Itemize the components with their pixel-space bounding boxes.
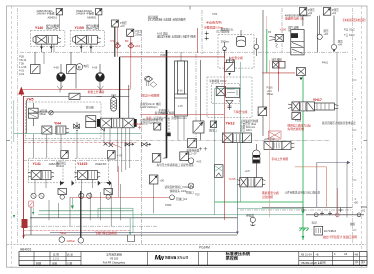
svg-text:35bar: 35bar xyxy=(267,92,274,96)
svg-text:叉车属具液压系统(选配): 叉车属具液压系统(选配) xyxy=(343,18,366,22)
svg-text:重量上升辅助: 重量上升辅助 xyxy=(88,90,105,94)
main feed heavy vertical xyxy=(97,57,129,118)
long fine print right xyxy=(322,121,356,125)
gauge square tilt 1 xyxy=(56,151,68,168)
svg-text:+D4: +D4 xyxy=(135,44,141,48)
svg-text:1:2286: 1:2286 xyxy=(318,260,326,264)
svg-text:测压口: 测压口 xyxy=(209,129,217,133)
svg-text:A3: A3 xyxy=(344,252,348,256)
red distribution line right xyxy=(262,72,295,73)
pilot red riser xyxy=(118,166,120,197)
svg-text:4WE6J6X: 4WE6J6X xyxy=(49,162,61,166)
pilot valve vertical stack xyxy=(291,30,304,55)
svg-text:+03: +03 xyxy=(120,24,125,28)
label YH15 red xyxy=(229,177,236,181)
svg-text:标识: 标识 xyxy=(312,221,318,225)
supply line red P060 xyxy=(122,53,225,57)
label Y141 red xyxy=(33,162,41,166)
pressure line left vertical xyxy=(26,100,28,134)
flow control valve 2 xyxy=(104,182,113,199)
pilot valve right side of YH4 xyxy=(86,106,105,131)
quick coupling D4 xyxy=(125,39,140,48)
motor M xyxy=(76,64,89,89)
red label YH13 xyxy=(226,122,235,126)
supply risers right xyxy=(270,16,318,136)
blue return wire long xyxy=(50,143,239,235)
svg-text:7/03: 7/03 xyxy=(212,12,218,16)
svg-text:YH5: YH5 xyxy=(27,98,34,102)
port circles tilt 1 xyxy=(31,193,44,198)
svg-text:第1: 第1 xyxy=(361,260,366,264)
svg-text:+04: +04 xyxy=(338,43,343,47)
pump P1 xyxy=(54,64,66,90)
frame centering marks xyxy=(7,6,368,141)
svg-text:11kW 2200rpm: 11kW 2200rpm xyxy=(140,105,157,109)
svg-text:AB4E61: AB4E61 xyxy=(87,15,97,19)
svg-text:过滤阀组: 过滤阀组 xyxy=(262,195,273,199)
bowtie valve YH4 xyxy=(74,124,80,128)
green riser main xyxy=(302,74,304,240)
tank port line right xyxy=(306,200,364,226)
green drops top bottom band xyxy=(32,177,215,215)
svg-text:减压阀组: 减压阀组 xyxy=(272,58,283,62)
svg-text:AB4001: AB4001 xyxy=(20,247,32,251)
svg-text:手动阀(先导): 手动阀(先导) xyxy=(206,21,222,25)
svg-text:P1B: P1B xyxy=(19,55,24,59)
svg-text:P060: P060 xyxy=(165,203,172,207)
right risers to manifold xyxy=(225,52,348,220)
green-fed filter valve xyxy=(215,165,224,178)
counterbalance valve small xyxy=(216,86,239,97)
red mini valve lower left of YH17 xyxy=(269,131,282,139)
svg-text:1-1/16: 1-1/16 xyxy=(19,65,27,69)
riser to pilot stack xyxy=(263,10,267,136)
port circle A1 xyxy=(317,16,329,40)
svg-text:XB 21-04: XB 21-04 xyxy=(301,252,312,256)
red riser right bottom xyxy=(336,188,340,217)
sensor gauge sq C xyxy=(149,175,164,184)
group enclosure xyxy=(207,77,252,118)
valve group enclosure YH4 xyxy=(26,102,102,138)
orifice circle YH4 xyxy=(33,111,101,115)
sideshift valve YH17 body xyxy=(288,102,338,111)
drain dash-dot left xyxy=(20,225,158,227)
steering return wire gray xyxy=(317,161,351,207)
pilot poppet under xyxy=(226,100,233,110)
svg-text:YH4: YH4 xyxy=(54,121,61,125)
red caption manual lift xyxy=(272,157,289,161)
svg-text:Y140: Y140 xyxy=(35,26,43,30)
flow bowtie 2 xyxy=(142,142,151,146)
svg-text:元件参数见清单表3 接口按标准: 元件参数见清单表3 接口按标准 xyxy=(285,191,321,195)
svg-text:P401: P401 xyxy=(322,61,329,65)
main directional valve body xyxy=(97,118,137,128)
svg-text:回油口G1: 回油口G1 xyxy=(176,197,188,201)
svg-text:CT52: CT52 xyxy=(159,112,166,116)
svg-text:P060: P060 xyxy=(161,53,168,57)
svg-text:+06: +06 xyxy=(160,179,165,183)
red pilot branch line xyxy=(140,114,224,116)
svg-text:N9K4 21#: N9K4 21# xyxy=(86,27,98,31)
level gauge box DL xyxy=(314,226,357,239)
svg-text:先导阀: 先导阀 xyxy=(86,106,94,110)
svg-text:泵控阀: 泵控阀 xyxy=(226,254,238,260)
green supply line top xyxy=(266,29,268,73)
svg-text:PG24M: PG24M xyxy=(199,246,210,250)
fine print line xyxy=(285,191,321,195)
pilot caption red xyxy=(204,12,230,34)
lowering valve body xyxy=(222,133,251,143)
breather port circle 2 xyxy=(78,191,84,243)
svg-text:T03: T03 xyxy=(195,193,200,197)
breather symbol center xyxy=(246,214,255,226)
caption text under DA xyxy=(140,102,161,109)
title block revision table text xyxy=(36,253,73,266)
red caption accumulator safety xyxy=(262,191,279,199)
svg-text:2位安全阀: 2位安全阀 xyxy=(230,56,243,60)
drain dash-dot right xyxy=(240,208,352,212)
green drain left border xyxy=(13,100,15,218)
svg-text:+03: +03 xyxy=(323,32,328,36)
fold mark line right xyxy=(353,6,362,267)
filter with arrow in accumulator group xyxy=(226,60,234,73)
junction box small xyxy=(166,119,171,136)
boundary dash-dot top right xyxy=(281,8,283,52)
wire riser from gauges xyxy=(115,27,131,90)
svg-text:YH13: YH13 xyxy=(226,122,235,126)
red solid block left xyxy=(22,219,67,235)
system caption text top center xyxy=(148,15,196,39)
breather port circle 1 xyxy=(59,237,75,243)
title block drawing title text xyxy=(225,250,251,260)
svg-text:24N9K4 平衡阀: 24N9K4 平衡阀 xyxy=(37,12,55,16)
flow valve bowtie xyxy=(125,143,134,146)
main pressure line red vertical xyxy=(24,96,34,239)
title block frame xyxy=(19,252,367,266)
red label down safety xyxy=(233,110,247,114)
svg-text:P105: P105 xyxy=(295,119,302,123)
lift assist line red with arrow xyxy=(18,87,130,97)
svg-text:▪B: ▪B xyxy=(316,252,319,256)
flow control valve 1 xyxy=(58,182,67,199)
pilot accumulator symbol xyxy=(245,144,261,178)
svg-text:Full-FR Changzhou: Full-FR Changzhou xyxy=(103,261,126,265)
suction strainer xyxy=(111,95,117,111)
svg-text:4-08: 4-08 xyxy=(54,65,60,69)
flow meter gauge big xyxy=(193,121,204,133)
svg-text:B3: B3 xyxy=(125,39,129,43)
pressure gauge G6 xyxy=(323,8,339,16)
title block drawing number text xyxy=(301,252,366,265)
pump suction strainers xyxy=(57,86,104,93)
svg-text:飞溅行程记励阀组: 飞溅行程记励阀组 xyxy=(94,231,117,235)
svg-text:7/8-14: 7/8-14 xyxy=(19,58,27,62)
svg-text:1:2.5: 1:2.5 xyxy=(53,257,59,261)
left port label column xyxy=(19,55,27,77)
svg-text:4-06: 4-06 xyxy=(178,90,183,93)
svg-text:YH17: YH17 xyxy=(313,98,322,102)
red caption travel xyxy=(94,231,117,235)
pump P2 xyxy=(92,64,105,90)
green drain line left xyxy=(14,132,141,134)
svg-text:蓄能器0.5L: 蓄能器0.5L xyxy=(221,27,234,31)
svg-text:接口 G3/4: 接口 G3/4 xyxy=(240,128,252,132)
svg-text:快换接头 G1/4: 快换接头 G1/4 xyxy=(170,189,187,193)
center fold dash-dot vertical xyxy=(141,30,143,244)
svg-text:+01: +01 xyxy=(332,11,337,15)
red pilot line to port xyxy=(70,195,174,200)
right border tick labels xyxy=(353,57,357,230)
return header green dark xyxy=(39,210,133,212)
test caption xyxy=(165,185,201,201)
svg-text:比 例: 比 例 xyxy=(53,253,59,257)
orange return wire xyxy=(295,167,327,208)
relief mini red top xyxy=(29,201,34,235)
green tank ground symbol xyxy=(299,211,309,239)
green branch left xyxy=(215,62,352,209)
svg-text:质 量: 质 量 xyxy=(67,253,73,257)
svg-text:4-05: 4-05 xyxy=(178,105,183,108)
svg-text:电机: 电机 xyxy=(84,64,90,68)
svg-text:P4: P4 xyxy=(268,30,272,34)
svg-text:+01: +01 xyxy=(361,208,366,212)
check valve on assist line xyxy=(24,93,103,99)
svg-text:先导式阀控制: 先导式阀控制 xyxy=(287,127,304,131)
small valve pair right of accumulator xyxy=(272,58,286,69)
title block product cell text xyxy=(103,252,126,264)
check valve V1 xyxy=(31,52,41,74)
accumulator safety valve cluster xyxy=(237,178,265,187)
gauge square right xyxy=(258,107,267,116)
solenoid valve group Y139 xyxy=(70,9,104,53)
svg-text:250bar: 250bar xyxy=(221,39,229,43)
svg-text:4-01: 4-01 xyxy=(19,69,25,73)
caption mixed red text block xyxy=(140,111,187,125)
svg-text:油位计带温度计 加油口滤网: 油位计带温度计 加油口滤网 xyxy=(323,235,358,239)
caption pilot text xyxy=(285,14,312,21)
pilot relief component xyxy=(296,61,328,81)
sensor gauge sq B xyxy=(152,154,194,167)
svg-text:(Y1412): (Y1412) xyxy=(133,122,143,126)
port circle pilot xyxy=(254,38,259,56)
red return segment xyxy=(24,230,131,232)
svg-text:120bar: 120bar xyxy=(66,239,75,243)
pressure gauge G1 xyxy=(112,20,128,28)
tilt valve 1 group xyxy=(28,158,74,193)
svg-text:YB 200: YB 200 xyxy=(110,256,119,260)
svg-text:油缸提升系统 ( 标准配置 ) 带缓冲下降阀: 油缸提升系统 ( 标准配置 ) 带缓冲下降阀 xyxy=(157,35,196,39)
port T2 circle xyxy=(186,183,194,195)
pilot drain vertical pair xyxy=(196,54,201,140)
svg-text:YH15: YH15 xyxy=(229,177,236,181)
check valve in accumulator group xyxy=(223,42,227,58)
svg-text:共1: 共1 xyxy=(355,260,360,264)
svg-text:手动上升阀组: 手动上升阀组 xyxy=(272,157,289,161)
sensor gauge sq D xyxy=(180,152,189,161)
sensor gauge sq A xyxy=(108,151,123,159)
vertical stubs bottom band xyxy=(49,184,154,226)
svg-text:日期: 日期 xyxy=(67,261,73,265)
pilot X box left xyxy=(268,30,284,48)
left risers to manifold xyxy=(33,44,77,158)
svg-text:35bar: 35bar xyxy=(39,112,46,116)
svg-text:四缸DA线路图: 四缸DA线路图 xyxy=(141,93,159,97)
svg-text:回油口: 回油口 xyxy=(186,191,194,195)
svg-text:25bar: 25bar xyxy=(135,32,142,36)
svg-text:凯傲宝骊 叉车公司: 凯傲宝骊 叉车公司 xyxy=(165,255,188,259)
tilt valve 2 group xyxy=(74,158,112,193)
svg-text:T口 G1/2: T口 G1/2 xyxy=(344,33,355,37)
svg-text:+05: +05 xyxy=(353,200,358,204)
svg-text:Y1415: Y1415 xyxy=(77,162,87,166)
pilot gauge square right of valve xyxy=(154,109,169,131)
drawing code text above title block xyxy=(20,246,210,252)
svg-text:4-07: 4-07 xyxy=(117,153,123,157)
filter F2 xyxy=(150,82,157,88)
svg-text:4-09: 4-09 xyxy=(92,65,98,69)
quick coupling D3 xyxy=(111,39,121,48)
svg-text:电磁换向阀 J台: 电磁换向阀 J台 xyxy=(285,17,304,21)
solenoid valve pair lower xyxy=(42,126,69,134)
wires below main valve xyxy=(104,128,130,172)
svg-text:P3: P3 xyxy=(111,39,115,43)
text block right of YH13 xyxy=(240,119,259,132)
pilot supply line vertical red xyxy=(198,10,209,54)
heavy line from gauge G1 xyxy=(166,50,168,158)
pressure gauge G2 xyxy=(127,29,143,36)
svg-text:下降安全阀: 下降安全阀 xyxy=(233,110,247,114)
label Y130 red xyxy=(280,26,300,33)
svg-text:Y141: Y141 xyxy=(33,162,41,166)
svg-text:制图: 制图 xyxy=(36,261,42,265)
title block logo KION Baoli xyxy=(155,252,199,266)
red caption sideshift xyxy=(287,123,311,131)
lift cylinder xyxy=(175,61,188,116)
check valve V2 xyxy=(67,52,77,74)
accumulator group frame xyxy=(218,27,254,68)
svg-text:属具回路压力按属具要求设定: 属具回路压力按属具要求设定 xyxy=(322,121,356,125)
green drop to tank xyxy=(129,218,131,235)
relief valve above group xyxy=(225,57,235,76)
svg-text:叉车工作液压系统 ( 标准配置 ) 转向优先阀组件: 叉车工作液压系统 ( 标准配置 ) 转向优先阀组件 xyxy=(148,18,186,22)
accumulator symbol xyxy=(237,30,246,47)
orifice under YH17 xyxy=(292,112,302,122)
svg-text:审核: 审核 xyxy=(52,261,58,265)
tank symbol left xyxy=(128,235,135,242)
suction header dash line xyxy=(20,51,348,53)
teal loop bottom xyxy=(98,208,133,233)
pressure gauge G5 xyxy=(299,8,315,16)
svg-text:4-03: 4-03 xyxy=(196,159,202,163)
port P2 circle xyxy=(186,158,202,164)
main red line tank arrow xyxy=(22,236,24,239)
svg-text:DL734B24: DL734B24 xyxy=(324,229,337,233)
svg-text:74bar: 74bar xyxy=(59,231,66,235)
svg-text:AB4E61: AB4E61 xyxy=(48,15,58,19)
manual lift valve cluster xyxy=(264,137,295,150)
caption attachment system red xyxy=(343,18,366,37)
parameter text left column xyxy=(267,86,274,97)
valve label Y1412 red xyxy=(133,122,143,129)
return header teal xyxy=(38,214,303,216)
fold mark line left xyxy=(12,6,18,267)
orifice cluster below valve xyxy=(104,142,122,148)
port circle B1 xyxy=(331,16,343,53)
gauge square mid xyxy=(209,121,217,133)
relief valve 2-way red label xyxy=(230,56,243,60)
boundary dash-dot mid xyxy=(24,141,331,143)
svg-text:先导压力传感器接口 选配件按需: 先导压力传感器接口 选配件按需 xyxy=(157,163,194,167)
svg-text:+0.5: +0.5 xyxy=(245,169,251,173)
tank enclosure box xyxy=(120,57,225,102)
svg-text:4WE6J6X: 4WE6J6X xyxy=(95,162,107,166)
solenoid valve group Y140 xyxy=(31,9,65,53)
port circles tilt 2 xyxy=(79,193,92,198)
svg-text:P口 G1/2: P口 G1/2 xyxy=(344,28,355,32)
label YH4 red xyxy=(54,121,61,125)
caption red DA line xyxy=(141,93,159,97)
svg-text:24N9K4 平衡阀: 24N9K4 平衡阀 xyxy=(76,12,94,16)
svg-text:4-02: 4-02 xyxy=(19,72,25,76)
svg-text:油箱: 油箱 xyxy=(350,222,356,226)
svg-text:叉车液压系统: 叉车液压系统 xyxy=(106,252,122,256)
tank symbol in YH4 group xyxy=(75,122,80,130)
svg-text:T1B: T1B xyxy=(19,62,24,66)
label Y142 red xyxy=(77,162,87,166)
dash-dot line tilt row xyxy=(23,160,142,162)
suction header black low xyxy=(24,234,238,236)
svg-text:4/8: 4/8 xyxy=(355,252,359,256)
svg-text:呼吸器: 呼吸器 xyxy=(246,214,254,218)
strainer filter xyxy=(144,76,152,86)
svg-text:Y130: Y130 xyxy=(280,28,287,32)
reducing valve stack xyxy=(29,103,48,126)
dash-dot junction pluses xyxy=(320,205,367,215)
flow sensor gauge square xyxy=(186,139,207,156)
svg-text:M: M xyxy=(78,65,81,69)
label YH17 red xyxy=(313,98,322,102)
svg-text:试验及检测接口 M14x1.5: 试验及检测接口 M14x1.5 xyxy=(165,185,194,189)
return header black xyxy=(30,217,237,219)
svg-text:N9K4 21#: N9K4 21# xyxy=(46,27,58,31)
svg-text:Y1/09: Y1/09 xyxy=(75,26,84,30)
cylinder feed wires xyxy=(167,52,185,158)
